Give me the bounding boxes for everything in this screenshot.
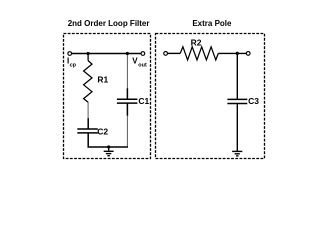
node junction top left xyxy=(87,52,90,55)
node junction Extra Pole xyxy=(236,52,239,55)
wire Vout branch down (thin) xyxy=(126,55,128,89)
svg-text:C3: C3 xyxy=(248,96,259,106)
svg-text:2nd Order Loop Filter: 2nd Order Loop Filter xyxy=(68,19,150,28)
node junction top right xyxy=(126,52,129,55)
wire C3 down xyxy=(236,104,238,152)
terminal left of Extra Pole xyxy=(164,52,168,56)
resistor R2 xyxy=(180,47,218,60)
wire junction down to C3 xyxy=(236,53,238,99)
wire top rail left box xyxy=(70,53,143,55)
svg-text:R1: R1 xyxy=(97,75,108,85)
svg-text:R2: R2 xyxy=(191,38,202,48)
ground left xyxy=(104,147,114,156)
capacitor C2 xyxy=(77,118,98,147)
wire R1 to C2 (thin) xyxy=(87,102,89,119)
wire bottom rail left box xyxy=(88,146,129,148)
capacitor C3 xyxy=(227,99,247,103)
terminal Vout xyxy=(141,52,145,56)
node junction bottom xyxy=(107,145,110,148)
svg-text:Extra Pole: Extra Pole xyxy=(192,19,232,28)
svg-text:out: out xyxy=(138,63,147,69)
box: 2nd Order Loop Filter dashed frame xyxy=(64,34,151,159)
capacitor C1 xyxy=(117,88,137,116)
svg-text:cp: cp xyxy=(70,63,77,69)
box: Extra Pole dashed frame xyxy=(156,34,265,159)
ground right xyxy=(232,151,242,156)
label Icp xyxy=(67,56,77,68)
wire R2 to terminal xyxy=(218,52,246,54)
svg-text:C2: C2 xyxy=(97,126,108,136)
terminal right of Extra Pole xyxy=(246,52,250,56)
svg-text:C1: C1 xyxy=(138,96,149,106)
label Vout xyxy=(132,56,147,68)
wire C1 down (thin) xyxy=(126,116,128,147)
terminal Icp xyxy=(68,52,72,56)
resistor R1 xyxy=(84,54,92,103)
wire to R2 xyxy=(168,52,181,54)
